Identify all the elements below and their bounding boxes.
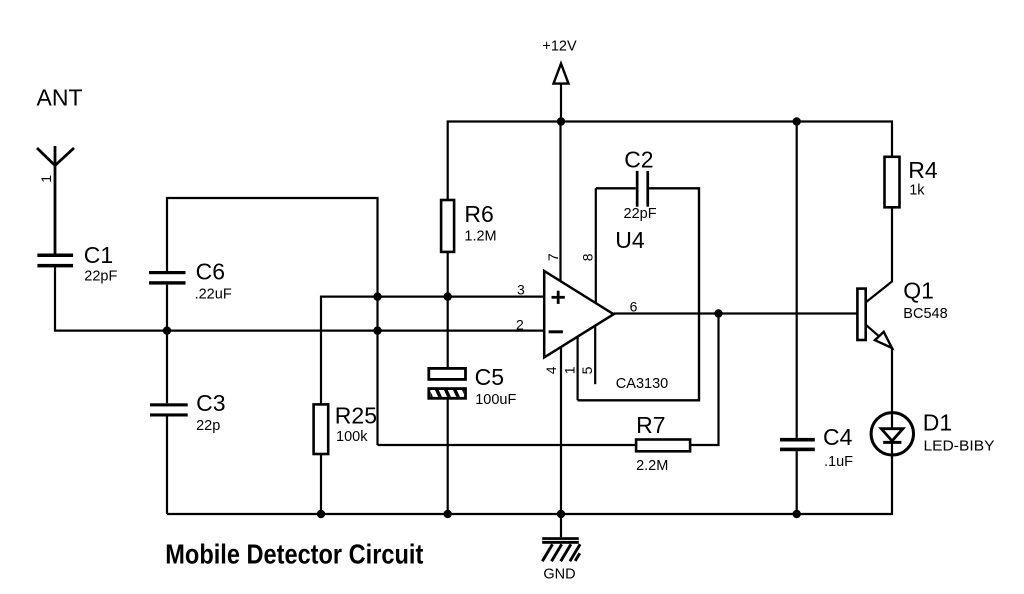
capacitor C5 (electrolytic) — [426, 368, 469, 401]
svg-text:R4: R4 — [908, 157, 938, 183]
capacitor C1 — [37, 254, 73, 268]
wire feedback R7 left — [378, 444, 637, 446]
svg-text:D1: D1 — [923, 409, 952, 435]
svg-text:C4: C4 — [823, 424, 853, 450]
junction dot C6/C3 at pin 2 wire — [163, 326, 171, 334]
svg-text:C6: C6 — [196, 258, 225, 284]
wire R25 to ground rail — [320, 454, 322, 514]
wire C6 top to feedback column — [167, 198, 378, 445]
wire C4 to ground rail — [796, 451, 798, 514]
junction dot C5 at ground rail — [444, 510, 452, 518]
svg-text:2.2M: 2.2M — [636, 458, 668, 474]
svg-text:.22uF: .22uF — [195, 287, 232, 303]
LED D1 circle — [871, 413, 913, 455]
svg-text:.1uF: .1uF — [824, 454, 853, 470]
svg-text:2: 2 — [516, 317, 524, 333]
antenna ANT symbol — [37, 146, 74, 254]
transistor Q1 base bar — [857, 289, 865, 340]
power +12V arrow — [554, 64, 569, 122]
op-amp plus symbol — [552, 291, 565, 304]
junction dot feedback at pin 3 wire — [373, 292, 381, 300]
svg-text:1: 1 — [562, 366, 578, 374]
svg-text:R6: R6 — [464, 201, 493, 227]
svg-text:C5: C5 — [475, 364, 504, 390]
svg-text:C3: C3 — [196, 390, 225, 416]
junction dot GND at ground rail — [557, 510, 565, 518]
svg-text:4: 4 — [543, 366, 559, 374]
svg-text:6: 6 — [630, 299, 638, 315]
wire op-amp pin 8 / U4 box left edge — [595, 188, 597, 303]
wire C3 to ground rail — [166, 417, 168, 515]
junction dot +12V at rail — [557, 117, 565, 125]
op-amp minus symbol — [549, 330, 563, 333]
svg-text:C1: C1 — [84, 242, 113, 268]
svg-text:8: 8 — [579, 253, 595, 261]
resistor R4 — [885, 157, 900, 208]
resistor R25 — [314, 404, 329, 454]
capacitor C6 — [149, 271, 186, 285]
capacitor C4 — [780, 438, 815, 451]
svg-text:ANT: ANT — [37, 85, 83, 111]
junction dot C4 at +12V rail — [793, 117, 801, 125]
svg-text:C2: C2 — [624, 146, 653, 172]
svg-text:100k: 100k — [336, 429, 368, 445]
svg-text:22pF: 22pF — [624, 206, 657, 222]
junction dot R25 at ground rail — [317, 510, 325, 518]
resistor R6 — [441, 200, 454, 252]
capacitor C2 — [636, 171, 649, 207]
svg-text:Q1: Q1 — [903, 277, 934, 303]
wire op-amp pin 5 stub — [594, 326, 596, 385]
wire D1 to ground rail and ground rail (bottom) — [167, 442, 892, 514]
svg-text:5: 5 — [579, 366, 595, 374]
svg-text:R7: R7 — [636, 412, 665, 438]
wire op-amp pin 1 to U4 box — [576, 337, 578, 401]
junction dot C4 at ground rail — [793, 510, 801, 518]
capacitor C3 — [150, 403, 188, 416]
junction dot R7 at pin 6 wire — [714, 309, 722, 317]
svg-text:1.2M: 1.2M — [464, 229, 496, 245]
svg-text:1k: 1k — [909, 183, 925, 199]
svg-text:1: 1 — [38, 175, 54, 183]
transistor Q1 emitter arrow — [875, 332, 892, 348]
wire op-amp pin 6 output to Q1 base — [614, 312, 858, 314]
ground symbol GND — [542, 514, 580, 561]
wire C1 to op-amp pin 2 (inverting input net) — [55, 267, 544, 330]
svg-text:CA3130: CA3130 — [616, 376, 668, 392]
IC U4 boundary box — [578, 188, 699, 400]
LED D1 cathode bar — [883, 441, 901, 444]
svg-text:3: 3 — [517, 281, 525, 297]
svg-text:22p: 22p — [196, 418, 220, 434]
transistor Q1 emitter — [866, 325, 892, 429]
junction dot feedback at pin 2 wire — [373, 326, 381, 334]
wire R4 to Q1 collector — [866, 207, 892, 302]
svg-text:Mobile Detector Circuit: Mobile Detector Circuit — [165, 539, 423, 570]
svg-text:GND: GND — [543, 566, 575, 582]
svg-text:LED-BIBY: LED-BIBY — [924, 439, 995, 455]
wire +12V rail (top) — [448, 122, 892, 201]
wire op-amp pin 4 to ground rail — [560, 347, 562, 514]
wire R7 right to pin 6 net — [690, 314, 718, 446]
wire C4 column top — [796, 122, 798, 438]
svg-text:R25: R25 — [335, 402, 377, 428]
svg-text:7: 7 — [545, 253, 561, 261]
wire op-amp pin 3 (non-inverting input net) to R25 — [321, 297, 544, 405]
junction dot R6 at pin 3 wire — [444, 292, 452, 300]
svg-text:22pF: 22pF — [84, 269, 117, 285]
wire op-amp pin 7 to +12V rail — [559, 122, 561, 282]
svg-text:+12V: +12V — [542, 39, 577, 55]
op-amp U4 triangle — [544, 271, 613, 357]
wire C6 to C3 — [166, 285, 168, 404]
LED D1 triangle — [881, 429, 903, 441]
svg-text:BC548: BC548 — [903, 306, 947, 322]
svg-text:100uF: 100uF — [475, 392, 516, 408]
svg-text:U4: U4 — [615, 227, 645, 253]
wire C5 to ground rail — [447, 398, 449, 514]
resistor R7 — [636, 440, 690, 452]
wire R6 to C5 — [447, 252, 449, 369]
